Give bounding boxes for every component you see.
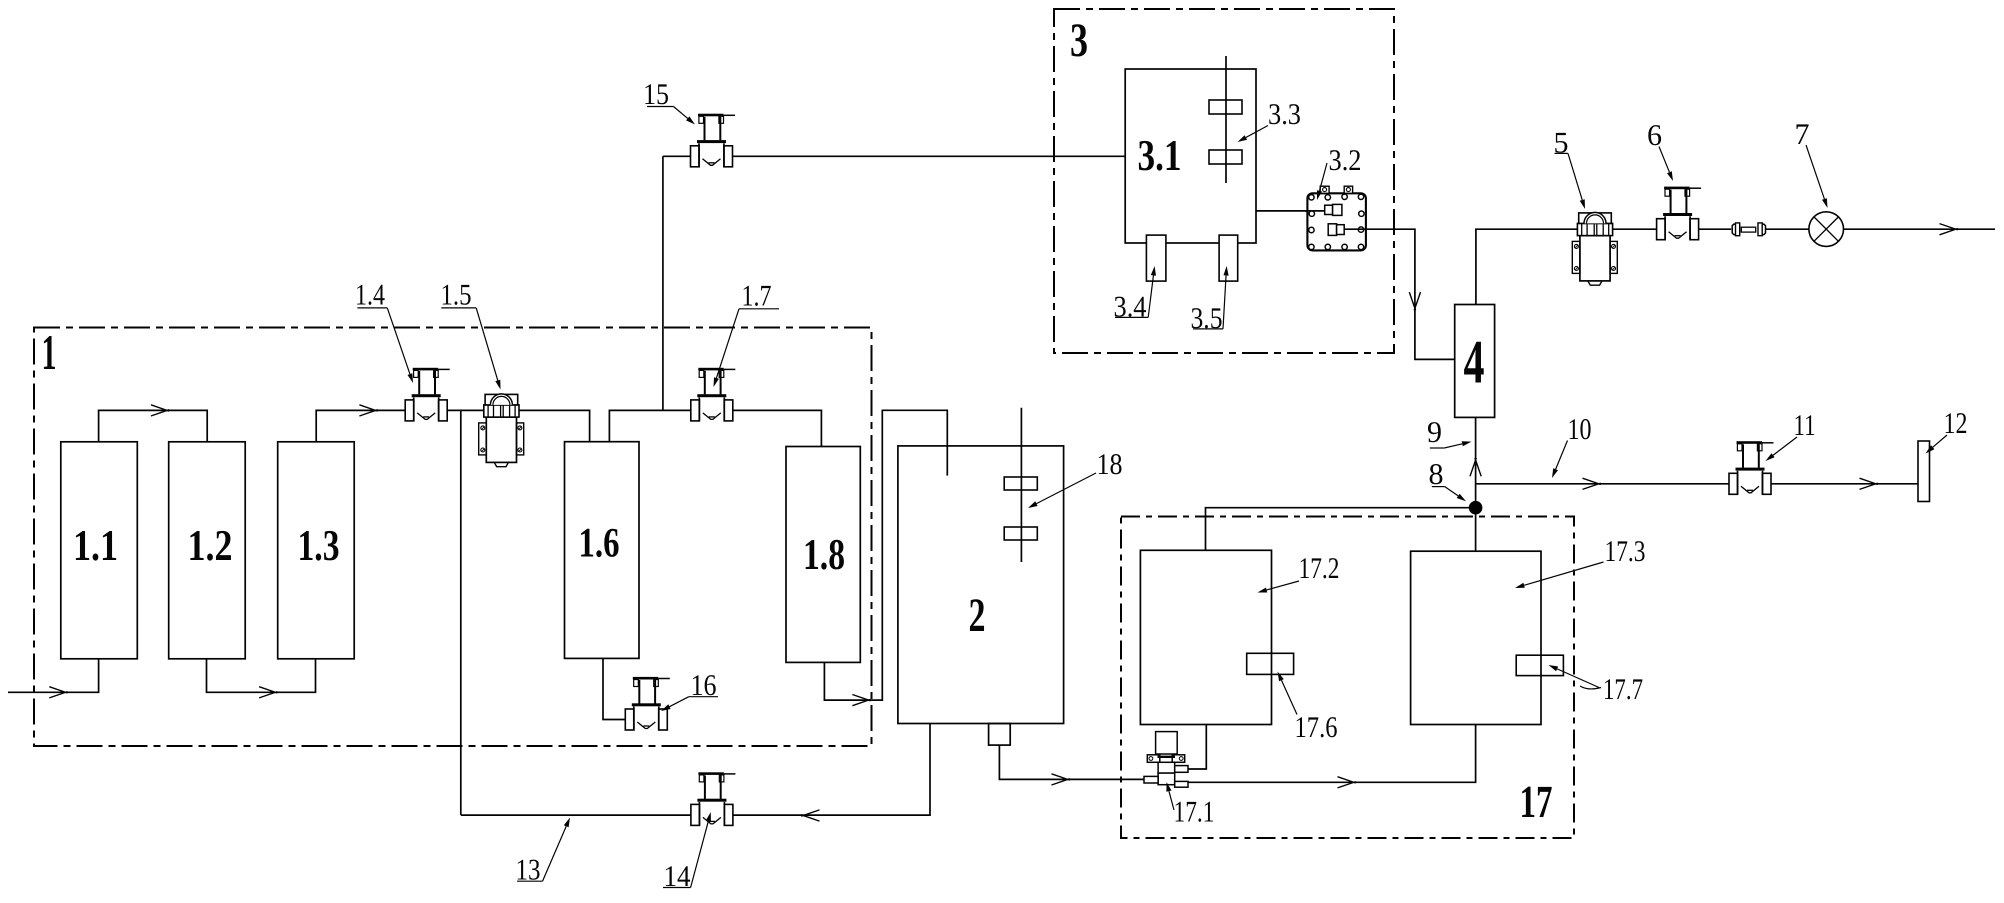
tank 1.1 — [61, 442, 138, 659]
label 3.3 — [1238, 98, 1302, 142]
flow arrow 1.3 to valve 1.4 — [359, 405, 377, 416]
svg-text:1.7: 1.7 — [742, 280, 772, 313]
dashed enclosure box 3 — [1054, 9, 1394, 353]
svg-text:1.4: 1.4 — [355, 279, 385, 312]
tank 2 bottom stub — [989, 724, 1011, 746]
stirrer paddle lower — [1004, 527, 1037, 540]
svg-text:10: 10 — [1568, 413, 1592, 446]
wire pump 5 to valve 6 — [1613, 228, 1657, 230]
vessel 3.1 — [1125, 69, 1256, 243]
svg-text:17.7: 17.7 — [1603, 673, 1643, 706]
tank 1.8 — [786, 447, 860, 663]
riser wire to valve 15 — [662, 156, 664, 410]
valve 14 — [691, 772, 736, 825]
label 9 — [1427, 416, 1472, 449]
flow arrow to tank 17.3 — [1338, 777, 1356, 788]
membrane 12 — [1918, 441, 1930, 502]
svg-text:9: 9 — [1427, 416, 1442, 449]
svg-text:1.6: 1.6 — [579, 520, 620, 566]
label 1.1 — [73, 521, 118, 570]
wire tank 2 bottom to valve 17.1 — [999, 745, 1144, 779]
svg-text:3: 3 — [1070, 14, 1088, 67]
svg-text:17.2: 17.2 — [1299, 552, 1340, 585]
wire column 4 top to pump 5 — [1476, 229, 1577, 304]
outlet wire right — [1844, 228, 1996, 230]
label 11 — [1766, 409, 1816, 461]
label 3.5 — [1191, 266, 1229, 335]
wire node 8 down to tank 17.3 top — [1475, 508, 1477, 552]
label 4 — [1464, 329, 1485, 397]
svg-text:3.2: 3.2 — [1329, 144, 1362, 177]
wire valve 17.1 upper port to tank 17.2 bottom — [1188, 725, 1206, 769]
stirrer paddle lower 3.1 — [1209, 150, 1242, 164]
flow arrow before membrane 12 — [1860, 478, 1878, 489]
pipe coupler — [1732, 223, 1765, 236]
valve 6 — [1657, 187, 1702, 240]
svg-text:5: 5 — [1554, 126, 1569, 159]
label 8 — [1429, 458, 1467, 501]
label 14 — [663, 812, 711, 893]
svg-text:18: 18 — [1097, 448, 1123, 481]
svg-text:17: 17 — [1520, 776, 1553, 827]
label 17 of box 17 — [1520, 776, 1553, 827]
svg-text:3.4: 3.4 — [1114, 291, 1147, 324]
wire tank 1.8 bottom to tank 2 dip tube — [824, 410, 947, 700]
wire valve 1.4 to pump 1.5 — [447, 409, 484, 411]
svg-text:12: 12 — [1944, 407, 1968, 440]
tank 1.2 — [169, 442, 246, 659]
outlet flow arrow — [1940, 224, 1958, 235]
wire tank 1.3 top to valve 1.4 — [316, 410, 405, 441]
pump 1.5 — [479, 394, 524, 467]
label 3.1 — [1138, 131, 1182, 180]
tank 1.3 — [278, 442, 355, 659]
pump 5 — [1572, 212, 1617, 285]
label 1.3 — [298, 521, 340, 570]
wire 3.1 to pump 3.2 — [1256, 210, 1325, 212]
svg-text:3.1: 3.1 — [1138, 131, 1182, 180]
svg-text:17.6: 17.6 — [1295, 711, 1338, 744]
svg-text:17.1: 17.1 — [1174, 796, 1215, 829]
inlet wire into tank 1.1 — [8, 659, 99, 693]
return wire 13 from tank 2 to junction — [461, 724, 930, 816]
wire valve 15 horizontal run — [663, 155, 1125, 157]
svg-text:7: 7 — [1795, 118, 1810, 151]
stirrer shaft in 3.1 — [1225, 56, 1227, 183]
label 1.6 — [579, 520, 620, 566]
wire coupler to fan 7 — [1766, 228, 1809, 230]
label 3.2 — [1317, 144, 1362, 200]
label 13 — [516, 818, 571, 887]
svg-text:1.2: 1.2 — [188, 521, 233, 570]
svg-text:1.3: 1.3 — [298, 521, 340, 570]
label 10 — [1552, 413, 1592, 478]
flow arrow 1.8 to tank 2 — [852, 695, 870, 706]
pump 3.2 — [1305, 186, 1366, 250]
label 1.8 — [803, 530, 845, 579]
flow arrow down to column 4 — [1409, 292, 1420, 310]
svg-text:1.1: 1.1 — [73, 521, 118, 570]
stirrer paddle upper 3.1 — [1209, 100, 1242, 114]
svg-text:3.5: 3.5 — [1191, 302, 1223, 335]
node 8 — [1469, 501, 1482, 514]
svg-text:1: 1 — [42, 324, 57, 380]
wire tank 1.6 bottom to valve 16 — [603, 658, 626, 719]
flow arrow up into column 4 — [1470, 458, 1481, 476]
svg-text:1.8: 1.8 — [803, 530, 845, 579]
flow arrow on wire 10 — [1583, 478, 1601, 489]
tank 17.2 — [1140, 550, 1271, 724]
column 4 — [1455, 305, 1495, 418]
dashed enclosure box 17 — [1121, 517, 1574, 839]
valve 1.4 — [405, 368, 450, 421]
wire column 4 to node 8 — [1475, 417, 1477, 507]
svg-text:3.3: 3.3 — [1268, 98, 1301, 131]
svg-text:4: 4 — [1464, 329, 1485, 397]
sensor 17.6 — [1247, 653, 1294, 674]
label 2 — [969, 589, 986, 642]
label 12 — [1926, 407, 1968, 454]
sensor 17.7 — [1516, 655, 1563, 675]
wire pump 3.2 to column 4 — [1344, 229, 1455, 359]
wire tank 1.2 bottom to tank 1.3 bottom — [207, 659, 316, 693]
dashed enclosure box 1 — [34, 328, 872, 747]
label 5 — [1554, 126, 1586, 209]
stub 3.4 — [1146, 235, 1166, 281]
label 16 — [661, 669, 718, 711]
valve 16 — [625, 677, 670, 730]
label 1.7 — [714, 280, 780, 388]
valve 11 — [1729, 441, 1774, 494]
tank 2 — [898, 446, 1064, 724]
wire tank 1.1 top to tank 1.2 top — [99, 410, 208, 441]
wire valve 6 to coupler — [1699, 228, 1731, 230]
label 17.6 — [1278, 672, 1338, 745]
wire pump 1.5 to tank 1.6 top — [519, 410, 590, 441]
fan 7 — [1809, 212, 1844, 247]
svg-text:2: 2 — [969, 589, 986, 642]
wire tank 1.6 top to valve 1.7 — [609, 410, 690, 441]
label 17.2 — [1258, 552, 1340, 593]
wire valve 17.1 to tank 17.3 bottom — [1188, 725, 1476, 783]
label 1.2 — [188, 521, 233, 570]
drain wire junction to return line — [460, 410, 462, 815]
label 1 of box 1 — [42, 324, 57, 380]
label 15 — [643, 78, 695, 125]
flow arrow 1.2 to 1.3 — [259, 687, 277, 698]
label 18 — [1028, 448, 1123, 508]
stub 3.5 — [1219, 235, 1238, 281]
flow arrow 1.1 to 1.2 — [151, 405, 169, 416]
label 7 — [1795, 118, 1828, 208]
label 3 of box 3 — [1070, 14, 1088, 67]
tank 17.3 — [1411, 551, 1541, 724]
wire 10 to membrane 12 — [1476, 483, 1918, 485]
label 17.3 — [1515, 535, 1646, 588]
label 3.4 — [1114, 266, 1157, 324]
valve 15 — [691, 114, 736, 167]
valve 17.1 — [1144, 732, 1188, 788]
stirrer paddle upper — [1004, 477, 1037, 490]
valve 1.7 — [691, 368, 736, 421]
label 1.5 — [441, 279, 501, 390]
tank 1.6 — [565, 442, 640, 659]
label 17.1 — [1166, 782, 1214, 829]
label 1.4 — [355, 279, 413, 384]
svg-text:17.3: 17.3 — [1605, 535, 1646, 568]
wire valve 1.7 to tank 1.8 top — [732, 410, 821, 446]
stirrer shaft 18 — [1020, 408, 1022, 562]
flow arrow tank 2 to valve 17.1 — [1052, 774, 1070, 785]
wire node 8 to tank 17.2 top — [1206, 508, 1476, 551]
return flow arrow — [801, 810, 819, 821]
svg-text:1.5: 1.5 — [441, 279, 472, 312]
label 17.7 — [1549, 665, 1644, 706]
label 6 — [1647, 119, 1673, 181]
inlet flow arrow — [49, 687, 67, 698]
